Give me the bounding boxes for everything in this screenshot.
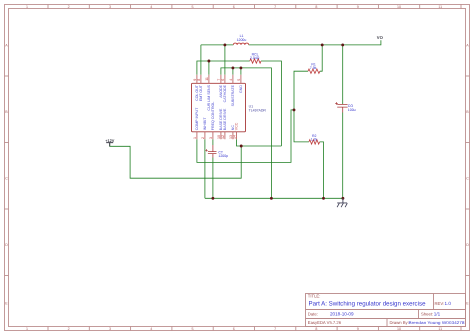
- junction: ground rail at R2: [322, 197, 325, 200]
- svg-text:2: 2: [68, 327, 70, 331]
- svg-text:C: C: [5, 177, 8, 181]
- svg-text:VO: VO: [377, 35, 384, 40]
- svg-text:5: 5: [237, 79, 241, 81]
- wire: COMP INPUT to feedback divider: [197, 110, 294, 162]
- svg-text:+12V: +12V: [105, 138, 115, 143]
- svg-text:9: 9: [357, 327, 359, 331]
- wire: VO rail to CO top: [342, 45, 344, 104]
- junction: VO rail at CO: [341, 43, 344, 46]
- wire: R1 to divider node: [294, 71, 308, 110]
- svg-text:1.2k: 1.2k: [311, 138, 318, 142]
- wire: ANODE/SUBSTRATE/GND to ground rail: [221, 68, 272, 198]
- svg-text:EasyEDA V5.7.26: EasyEDA V5.7.26: [308, 320, 342, 325]
- wire: INHIBIT to ground rail: [204, 139, 206, 198]
- svg-text:1.0: 1.0: [445, 301, 452, 306]
- svg-text:6: 6: [221, 79, 225, 81]
- svg-text:5: 5: [192, 327, 194, 331]
- svg-text:INHIBIT: INHIBIT: [203, 117, 207, 131]
- svg-text:9: 9: [357, 5, 359, 9]
- svg-text:C: C: [466, 177, 469, 181]
- svg-text:COMP INPUT: COMP INPUT: [195, 107, 199, 130]
- svg-text:GND: GND: [239, 85, 243, 93]
- svg-text:Date:: Date:: [308, 311, 318, 316]
- svg-text:D: D: [5, 243, 8, 247]
- svg-text:1200p: 1200p: [218, 154, 228, 158]
- svg-text:7: 7: [274, 5, 276, 9]
- junction: switch node LX at cathode: [223, 43, 226, 46]
- wire: GND pin stub: [240, 68, 242, 75]
- svg-text:FREQ CONTROL: FREQ CONTROL: [211, 102, 215, 131]
- wire: VIN switch node rail (EMT OUT to L1 to VO): [201, 40, 381, 45]
- capacitor CO 100u (polarized): [335, 102, 355, 112]
- wire: VO rail to R1: [320, 45, 322, 71]
- svg-text:5: 5: [192, 5, 194, 9]
- svg-text:4: 4: [150, 327, 152, 331]
- svg-text:11: 11: [438, 5, 442, 9]
- resistor R2 1.2k: [309, 134, 320, 144]
- svg-text:Brendan Young W0034278: Brendan Young W0034278: [409, 320, 466, 325]
- wire: EMT OUT pin 8 drop: [200, 45, 202, 75]
- power flag +12V: [105, 138, 115, 146]
- wire: R2 to ground rail: [320, 142, 324, 198]
- svg-text:BASE DRIVE: BASE DRIVE: [223, 108, 227, 130]
- junction: substrate to ground run: [231, 66, 234, 69]
- svg-text:1: 1: [26, 327, 28, 331]
- svg-text:Drawn By:: Drawn By:: [390, 320, 409, 325]
- svg-text:TITLE:: TITLE:: [308, 294, 321, 299]
- junction: gnd pin to ground run: [239, 66, 242, 69]
- svg-text:100u: 100u: [348, 108, 356, 112]
- svg-text:Sheet:: Sheet:: [421, 311, 433, 316]
- resistor RCL 2.04: [250, 52, 261, 63]
- svg-text:2: 2: [201, 137, 205, 139]
- wire: RCL right to VCC node: [261, 61, 281, 146]
- IC U1 TL497ADR switching voltage regulator (with pin numbers and pin names): [192, 75, 267, 140]
- junction: ground rail at anode run: [270, 197, 273, 200]
- svg-text:1200u: 1200u: [237, 38, 247, 42]
- wire: COL OUT / CUR LIM SENS to RCL left: [197, 61, 250, 75]
- svg-text:14: 14: [233, 135, 237, 139]
- svg-text:2: 2: [68, 5, 70, 9]
- svg-text:4: 4: [229, 79, 233, 81]
- svg-text:1: 1: [26, 5, 28, 9]
- svg-text:2018-10-09: 2018-10-09: [330, 311, 354, 316]
- wire: CATHODE pin 6 drop: [224, 45, 226, 75]
- svg-text:CATHODE: CATHODE: [223, 84, 227, 102]
- svg-text:11: 11: [438, 327, 442, 331]
- wire: FREQ CONTROL to CT top: [212, 139, 214, 145]
- capacitor CT 1200p: [205, 145, 228, 158]
- junction: ground rail at CO/ground: [341, 197, 344, 200]
- svg-text:2.04Ω: 2.04Ω: [250, 56, 260, 60]
- svg-text:SUBSTRATE: SUBSTRATE: [231, 84, 235, 106]
- wire: CT bottom to ground rail: [212, 158, 214, 199]
- svg-text:REV:: REV:: [435, 301, 445, 306]
- wire: CO bottom to ground rail: [342, 113, 344, 199]
- wire: SUBSTRATE stub: [232, 68, 234, 75]
- svg-text:D: D: [466, 243, 469, 247]
- wire: divider node to R2: [294, 110, 309, 142]
- svg-text:4: 4: [150, 5, 152, 9]
- svg-text:8: 8: [197, 79, 201, 81]
- svg-text:Part A: Switching regulator de: Part A: Switching regulator design exerc…: [309, 301, 426, 308]
- svg-text:1: 1: [193, 137, 197, 139]
- title block: [306, 294, 466, 327]
- wire: ground rail: [205, 197, 343, 199]
- svg-text:11: 11: [205, 77, 209, 81]
- svg-text:10: 10: [397, 327, 401, 331]
- junction: ground rail at CT: [211, 197, 214, 200]
- svg-text:12: 12: [221, 135, 225, 139]
- svg-text:EMT OUT: EMT OUT: [199, 84, 203, 101]
- wire: +12V supply run: [110, 143, 242, 179]
- svg-text:7: 7: [274, 327, 276, 331]
- svg-text:10: 10: [397, 5, 401, 9]
- svg-text:6: 6: [233, 5, 235, 9]
- svg-text:7.9k: 7.9k: [310, 66, 317, 70]
- junction: VCC +12V node: [240, 145, 243, 148]
- junction: feedback divider node: [293, 108, 296, 111]
- junction: cur lim sense node: [207, 60, 210, 63]
- svg-text:3: 3: [209, 137, 213, 139]
- net flag VO: [377, 35, 384, 40]
- svg-text:8: 8: [315, 5, 317, 9]
- junction: VO rail at R1: [321, 43, 324, 46]
- wire: VCC pin feed: [237, 139, 282, 146]
- ground symbol: [337, 198, 347, 207]
- svg-text:3: 3: [109, 327, 111, 331]
- svg-text:3: 3: [109, 5, 111, 9]
- wire: CUR LIM SENS stub: [208, 61, 210, 75]
- inductor L1 1200u: [233, 34, 248, 45]
- svg-text:TL497ADR: TL497ADR: [249, 109, 267, 113]
- svg-text:1/1: 1/1: [434, 311, 441, 316]
- svg-text:8: 8: [315, 327, 317, 331]
- svg-text:VCC: VCC: [235, 122, 239, 130]
- svg-text:6: 6: [233, 327, 235, 331]
- resistor R1 7.9k: [308, 62, 320, 73]
